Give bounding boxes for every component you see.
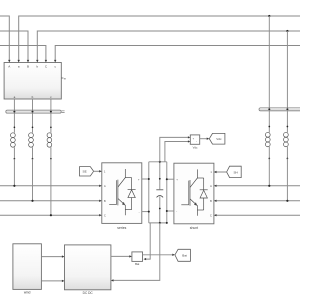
node bus A / L1	[13, 185, 15, 187]
wire L4 to bus line A	[268, 159, 270, 186]
node bus A / L4	[268, 185, 270, 187]
wire series - output to DC link left rail	[142, 211, 149, 213]
node inductor L1 bottom terminal	[14, 158, 16, 160]
wire series + output to DC link left rail	[142, 178, 149, 180]
svg-text:SH: SH	[233, 170, 237, 174]
svg-text:series: series	[117, 226, 126, 230]
node inductor L4 top terminal	[268, 126, 270, 128]
goto tag Bat	[175, 249, 191, 261]
node C1 bottom terminal	[159, 208, 161, 210]
goto tag Vdc	[209, 133, 225, 144]
node DC link top center	[159, 161, 161, 163]
wire DC-DC output 1 to battery measurement block	[111, 255, 130, 257]
wire VM output to goto tag Vdc	[200, 138, 207, 140]
wire wind output 2 to DC-DC input 2	[41, 280, 62, 282]
wire shunt - input from DC link right rail	[167, 210, 174, 212]
wire DC link + to voltage measurement input 1	[160, 137, 188, 161]
wire battery measurement output to goto tag Bat	[143, 254, 173, 256]
node inductor L2 bottom terminal	[32, 158, 34, 160]
wire phase A main line from transformer pin a2 to right edge	[19, 16, 300, 60]
wire DC link bottom left down into battery measurement right port	[146, 223, 150, 259]
svg-text:SE: SE	[83, 170, 87, 174]
node shunt + on rail	[166, 178, 168, 180]
node bus C / L3	[50, 214, 52, 216]
wire DC link left rail	[148, 162, 150, 223]
node bus B / L5	[286, 200, 288, 202]
wire L2 to bus line B	[32, 159, 34, 201]
node inductor L3 bottom terminal	[50, 158, 52, 160]
wire transformer secondary b down to busbar	[32, 99, 34, 110]
wire busbar to inductor L2	[32, 113, 34, 133]
wire busbar B2 to inductor L4	[268, 111, 270, 132]
wire transformer secondary c down to busbar	[50, 99, 52, 110]
svg-text:B: B	[27, 64, 29, 68]
wire phase C main line from transformer pin c2 to right edge	[55, 46, 300, 61]
svg-text:-: -	[176, 209, 177, 213]
block wind turbine source	[13, 244, 42, 290]
wire transformer secondary a down to busbar	[13, 99, 15, 110]
svg-text:Bat: Bat	[135, 262, 139, 266]
from tag SE	[80, 167, 94, 176]
wire bus line A left into series port A	[0, 185, 100, 187]
pin m on transformer right edge	[61, 77, 67, 81]
wire right branch 1 phase A down to busbar B2	[268, 16, 270, 108]
voltage measurement block VM	[190, 135, 199, 144]
from tag SH	[227, 166, 242, 177]
block DC-DC converter	[65, 245, 111, 290]
node inductor L4 bottom terminal	[268, 158, 270, 160]
wire bus line B right from shunt port B to edge	[216, 200, 300, 202]
wire shunt + input from DC link right rail	[167, 178, 174, 180]
node DC link bottom right	[166, 222, 168, 224]
svg-text:Vdc: Vdc	[193, 146, 198, 150]
wire L3 to bus line C	[50, 159, 52, 216]
wire SH tag to shunt gate port 1	[216, 171, 226, 173]
node inductor L1 top terminal	[14, 126, 16, 128]
node inductor L2 top terminal	[32, 126, 34, 128]
op icon IGBT Q2 with diode D2 inside shunt block	[181, 169, 207, 215]
inductor L4	[265, 132, 270, 158]
wire L1 to bus line A	[13, 159, 15, 186]
svg-text:C: C	[104, 214, 106, 217]
converter block U2 shunt	[174, 163, 214, 224]
node bus B / L2	[31, 200, 33, 202]
node phase B tap for right branch 2	[286, 30, 288, 32]
inductor L5	[284, 132, 289, 158]
svg-text:wind: wind	[24, 291, 31, 295]
node C1 top terminal	[159, 178, 161, 180]
svg-text:-: -	[139, 210, 140, 214]
wire bus line C left into series port C	[0, 214, 100, 216]
inductor L3	[47, 133, 52, 159]
node inductor L5 bottom terminal	[287, 158, 289, 160]
wire busbar to inductor L3	[50, 113, 52, 133]
node shunt - on rail	[166, 210, 168, 212]
wire DC link top cap	[149, 161, 167, 163]
node busbar B1 phase c	[50, 111, 52, 113]
wire DC link bottom center down and left to DC-DC right port 2	[113, 223, 159, 281]
node DC link bottom center	[159, 222, 161, 224]
wire busbar to inductor L1	[13, 113, 15, 133]
busbar B1 left measurement bus	[6, 110, 65, 113]
wire phase B main line from transformer pin b2 to right edge	[37, 31, 300, 60]
wire phase B left segment to transformer pin B	[0, 31, 28, 60]
svg-text:DC DC: DC DC	[83, 291, 94, 295]
busbar B2 right measurement bus	[259, 108, 302, 111]
node inductor L5 top terminal	[287, 126, 289, 128]
svg-text:C: C	[210, 214, 212, 217]
transformer T1 three-phase block	[4, 60, 61, 99]
wire bus line B left into series port B	[0, 200, 100, 202]
wire DC link - to voltage measurement input 2	[165, 142, 188, 162]
wire bus line C right from shunt port C to edge	[216, 214, 300, 216]
wire L5 to bus line B	[286, 159, 288, 201]
node series + on rail	[148, 178, 150, 180]
node series - on rail	[148, 211, 150, 213]
node busbar B1 phase b	[32, 111, 34, 113]
svg-text:Bat: Bat	[182, 254, 187, 258]
block battery measurement Bat1	[132, 252, 143, 262]
node busbar B2 branch 2	[286, 108, 288, 110]
inductor L1	[11, 133, 16, 159]
wire busbar B2 to inductor L5	[286, 111, 288, 132]
node inductor L3 top terminal	[50, 126, 52, 128]
node busbar B2 branch 1	[268, 108, 270, 110]
wire phase C left segment to transformer pin C	[0, 46, 46, 61]
svg-text:shunt: shunt	[190, 226, 198, 230]
converter block U1 series	[102, 163, 142, 224]
wire right branch 2 phase B down to busbar B2	[286, 31, 288, 108]
svg-text:A: A	[8, 64, 10, 68]
wire bus line A right from shunt port A to edge	[216, 185, 300, 187]
svg-text:-: -	[196, 141, 197, 144]
capacitor C1 DC link	[156, 162, 163, 223]
node phase A tap for right branch 1	[268, 15, 270, 17]
wire DC link bottom cap	[149, 222, 167, 224]
wire wind output 1 to DC-DC input 1	[41, 256, 62, 258]
op icon IGBT Q1 with diode D1 inside series block	[109, 169, 135, 215]
wire phase A left segment to transformer pin A	[0, 16, 9, 60]
svg-text:Vdc: Vdc	[216, 137, 222, 141]
node busbar B1 phase a	[13, 111, 15, 113]
wire DC link right rail	[166, 162, 168, 223]
inductor L2	[29, 133, 34, 159]
wire SE tag to series gate port 1	[94, 170, 100, 172]
